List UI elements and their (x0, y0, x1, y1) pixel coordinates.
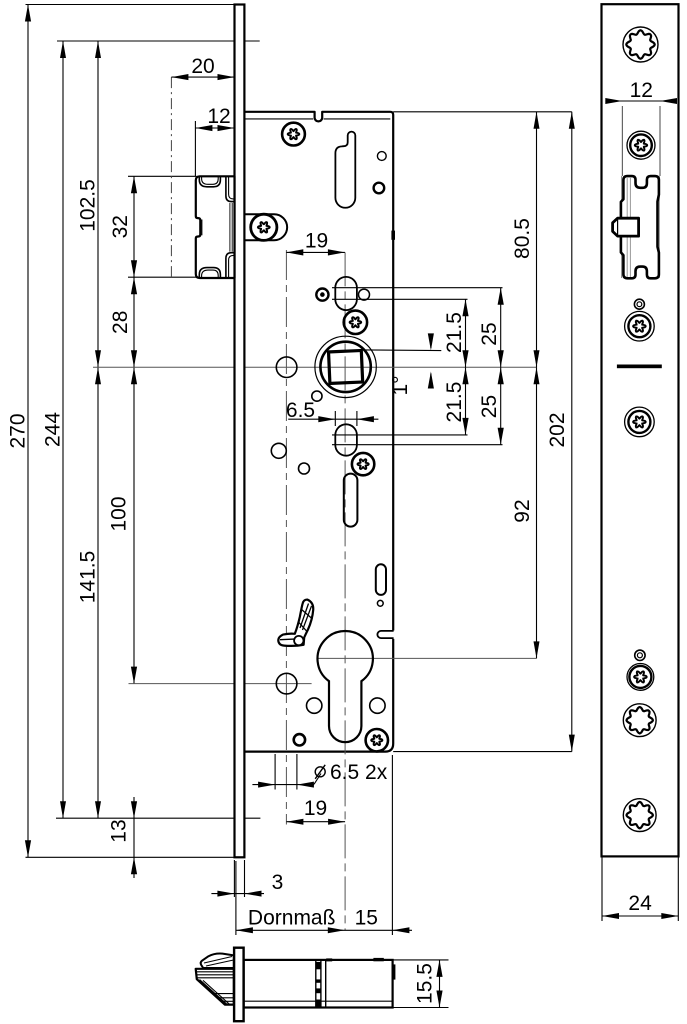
euro cylinder profile (318, 631, 373, 742)
cylinder horizontal centerline (317, 657, 537, 659)
torx screw r3 (625, 407, 655, 437)
svg-text:6.5 2x: 6.5 2x (330, 761, 388, 784)
dim 244 line (62, 41, 64, 818)
thick small circle (294, 734, 305, 745)
follower square (329, 350, 363, 383)
8-lobe screw mid (623, 704, 656, 737)
svg-text:Dornmaß: Dornmaß (248, 907, 336, 930)
latch snib section (201, 954, 234, 968)
right edge slot (377, 631, 393, 638)
section faceplate bar (234, 948, 244, 1022)
svg-text:92: 92 (511, 499, 534, 522)
circle below cyl right (370, 698, 385, 713)
ext hole edges (274, 754, 276, 790)
section joint (315, 960, 317, 1008)
torx screw in housing (251, 214, 277, 240)
dim 80.5 line (536, 112, 538, 367)
torx screw bottom (366, 729, 388, 751)
dim 24 ext (601, 856, 603, 921)
capsule slot (344, 474, 358, 527)
section case bar (244, 960, 393, 1008)
svg-text:80.5: 80.5 (511, 218, 534, 259)
dim 6.5 line (288, 418, 378, 420)
dim 19 top line (286, 251, 345, 253)
section end blob (393, 964, 396, 979)
svg-text:12: 12 (630, 79, 653, 102)
ext line y=277.2 latch bottom (128, 276, 197, 278)
dim 13 line (133, 797, 135, 878)
ext line x=195.4 (194, 121, 196, 176)
svg-text:202: 202 (546, 412, 569, 447)
dim 100 line (133, 367, 135, 683)
thick circle near slot (374, 183, 385, 194)
latch channel bottom (226, 253, 235, 278)
small circle below follower (312, 391, 322, 401)
dia 6.5 leader (314, 774, 321, 785)
follower vertical centerline (344, 252, 346, 930)
svg-text:20: 20 (191, 55, 214, 78)
svg-text:270: 270 (7, 413, 30, 448)
latch channel top (226, 177, 235, 202)
small circle right of stadium (359, 289, 370, 300)
case right edge tab (391, 231, 395, 240)
ext lines right slot (621, 106, 623, 176)
svg-text:25: 25 (478, 322, 501, 345)
svg-text:1°: 1° (389, 375, 412, 395)
dim 21.5 lower (465, 367, 467, 435)
case top ext to right (393, 111, 572, 113)
rivet pin (316, 289, 328, 301)
black bar (617, 365, 662, 369)
follower horizontal centerline (93, 366, 537, 368)
svg-text:141.5: 141.5 (77, 551, 100, 604)
svg-text:15: 15 (355, 907, 378, 930)
upper 6.5 hole (276, 357, 297, 378)
small circle r2 (634, 299, 644, 309)
svg-text:6.5: 6.5 (286, 399, 315, 422)
torx screw below follower (352, 453, 374, 475)
dim 25 upper (500, 288, 502, 368)
dim 12 right line (606, 100, 675, 102)
latch inner vertical (201, 220, 203, 236)
follower outer circle (315, 336, 376, 397)
svg-text:25: 25 (478, 395, 501, 418)
dim 28 line (133, 277, 135, 367)
1deg dim line (430, 335, 432, 349)
dim 15.5 ext (393, 959, 449, 961)
dia symbol (315, 767, 325, 777)
ext faceplate edges (233, 860, 235, 897)
lower hole horizontal centerline (129, 683, 312, 685)
svg-text:3: 3 (272, 871, 284, 894)
dim 24 line (602, 915, 678, 917)
latch bolt front view (196, 176, 235, 278)
dim 19 bottom line (286, 821, 345, 823)
follower ring (320, 342, 370, 392)
dim 32 line (133, 176, 135, 277)
torx screw r1 (627, 131, 655, 159)
section top ticks (326, 958, 332, 961)
svg-text:13: 13 (108, 819, 131, 842)
dash-dot latch tip line (170, 77, 172, 278)
lower 6.5 hole (276, 673, 297, 694)
lower stadium slot (335, 424, 357, 455)
dim 12 line (195, 127, 234, 129)
extension line y=42.5 (244/102.5 top) (57, 40, 260, 42)
dim 21.5 upper (465, 299, 467, 367)
svg-text:12: 12 (207, 105, 230, 128)
ext x=392.4 (391, 755, 393, 935)
svg-text:24: 24 (628, 892, 652, 915)
circle below cyl left (307, 698, 322, 713)
ext line y=176.3 latch top (128, 175, 197, 177)
faceplate strip (235, 5, 245, 858)
dornmass dim line (236, 929, 412, 931)
torx screw above follower (344, 311, 367, 334)
dim 25 lower (500, 367, 502, 444)
dim 270 line (27, 5, 29, 858)
ext x=335.3 stub (334, 411, 336, 426)
svg-text:19: 19 (305, 230, 328, 253)
extension line y=857 (270 bottom) (26, 856, 235, 858)
tiny circle (377, 600, 383, 606)
dim 202 line (571, 112, 573, 752)
dia 6.5 dim line (252, 784, 314, 786)
dim 20 line (171, 76, 234, 78)
lock case outline (front view) (244, 112, 393, 752)
torx screw r2 (625, 311, 655, 341)
circle left (271, 443, 286, 458)
ext y=434.9 (332, 434, 468, 436)
hole vertical centerline (285, 250, 287, 825)
latch bevel bottom (199, 268, 220, 278)
svg-text:21.5: 21.5 (443, 312, 466, 353)
dim 141.5 line (97, 367, 99, 818)
latch bevel top (199, 177, 220, 187)
svg-text:19: 19 (304, 797, 327, 820)
small capsule slot (376, 564, 386, 595)
svg-text:21.5: 21.5 (443, 382, 466, 423)
dim 102.5 line (97, 41, 99, 367)
small circle mid (299, 463, 310, 474)
right faceplate strip (602, 4, 679, 856)
svg-text:32: 32 (109, 215, 132, 238)
latch mid line (229, 203, 231, 252)
ext x=356.9 stub (356, 411, 358, 426)
case bottom ext to right (393, 751, 572, 753)
dim 15.5 line (439, 960, 441, 1008)
ext y=444.7 (332, 444, 503, 446)
8-lobe screw top (623, 27, 658, 62)
dim 3 line (211, 893, 264, 895)
screw housing (245, 214, 288, 240)
small circle near slot (377, 152, 386, 161)
extension line y=818 (244 bottom) (56, 817, 260, 819)
svg-text:102.5: 102.5 (77, 179, 100, 232)
1deg reference line (362, 349, 441, 352)
section inner line (244, 1000, 393, 1002)
keyhole slot (335, 132, 355, 208)
right latch mechanism (621, 176, 623, 278)
svg-text:100: 100 (108, 496, 131, 531)
ext y=299.3 (332, 298, 468, 300)
torx screw r4 (627, 664, 654, 691)
ext x=235.9 (235, 861, 237, 935)
case inner top edge line (244, 118, 313, 120)
right edge slot mask (391, 631, 396, 639)
change lever (Wechsel) (278, 600, 313, 646)
latch bolt section (196, 969, 234, 1005)
dim 92 line (536, 367, 538, 658)
small circle r4 (635, 650, 645, 660)
svg-text:28: 28 (109, 311, 132, 334)
svg-text:244: 244 (42, 412, 65, 447)
8-lobe screw bottom (623, 799, 656, 832)
ext y=287.7 (332, 287, 503, 289)
upper stadium slot (335, 277, 357, 310)
svg-text:15.5: 15.5 (414, 963, 437, 1004)
extension line y=4.5 (270 top) (26, 4, 235, 6)
torx screw top-left (282, 123, 305, 146)
